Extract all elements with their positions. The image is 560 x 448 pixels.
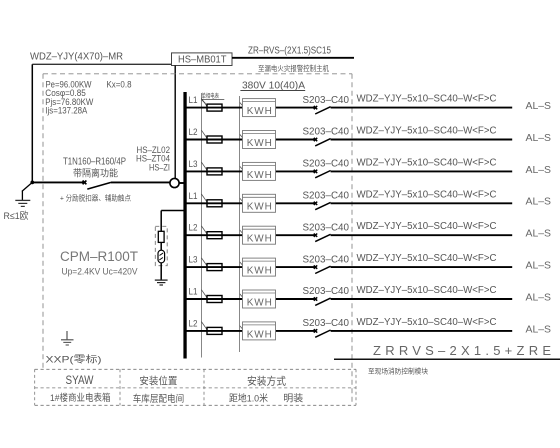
branch circuit 1 (L1) wire: bus to fuse to meter	[187, 107, 316, 109]
svg-text:ZR–RVS–(2X1.5)SC15: ZR–RVS–(2X1.5)SC15	[248, 45, 331, 56]
SPD dashed enclosure	[155, 226, 167, 265]
kWh meter P2	[243, 131, 276, 149]
svg-text:S203–C40: S203–C40	[303, 95, 350, 106]
kWh meter P7	[243, 290, 276, 308]
svg-text:HS–MB01T: HS–MB01T	[178, 55, 227, 66]
table column border 1	[119, 369, 121, 405]
wire: PE down stem	[21, 191, 23, 200]
svg-text:+ 分励脱扣器、辅助触点: + 分励脱扣器、辅助触点	[60, 193, 131, 202]
svg-text:明装: 明装	[283, 392, 304, 404]
svg-text:单相电表: 单相电表	[202, 92, 220, 100]
svg-text:KWH: KWH	[247, 329, 272, 340]
svg-text:L3: L3	[189, 159, 198, 170]
wire: SPD vertical drop	[160, 211, 162, 232]
svg-text:XXP(零标): XXP(零标)	[46, 353, 102, 365]
table middle border	[35, 387, 356, 389]
branch circuit 7 wire: breaker to outgoing end	[331, 298, 513, 300]
table top border	[35, 368, 356, 370]
tap diagonal to meter, branch 6	[240, 262, 244, 266]
wire: main feed to breaker	[32, 181, 84, 183]
wire: SPD tap from busbar	[161, 210, 183, 212]
branch circuit 5 wire: breaker to outgoing end	[331, 234, 513, 236]
fuse F8	[207, 327, 222, 334]
svg-text:L1: L1	[189, 287, 198, 298]
svg-text:AL–S: AL–S	[526, 228, 552, 240]
wire: incoming feeder horizontal	[32, 63, 171, 65]
svg-text:Ijs=137.28A: Ijs=137.28A	[45, 106, 87, 116]
branch circuit 8 (L2) wire: bus to fuse to meter	[187, 330, 316, 332]
wire: XXP earth stem	[66, 331, 68, 340]
tap diagonal to meter, branch 5	[240, 230, 244, 234]
svg-text:S203–C40: S203–C40	[303, 159, 350, 170]
meter module HS-MB01T box	[172, 53, 233, 66]
svg-text:L1: L1	[189, 95, 198, 106]
breaker QF1 blade	[315, 107, 330, 114]
tap diagonal to meter, branch 2	[240, 134, 244, 138]
svg-text:AL–S: AL–S	[526, 260, 552, 272]
svg-text:AL–S: AL–S	[526, 100, 552, 112]
kWh meter P3	[243, 162, 276, 180]
svg-text:L2: L2	[189, 223, 198, 234]
breaker QF7 blade	[315, 298, 330, 305]
wire: HS-MB01T drop to CT circle	[174, 66, 176, 179]
node: service entrance junction dot	[30, 181, 34, 185]
svg-text:至漏电火灾报警控制主机: 至漏电火灾报警控制主机	[258, 64, 330, 73]
svg-text:带隔离功能: 带隔离功能	[73, 167, 118, 179]
svg-text:AL–S: AL–S	[526, 164, 552, 176]
tap diagonal to meter, branch 3	[240, 166, 244, 170]
svg-text:380V 10(40)A: 380V 10(40)A	[242, 80, 305, 92]
table left border	[34, 369, 36, 405]
kWh meter P4	[243, 194, 276, 212]
breaker QF5 contact cross	[314, 234, 317, 237]
breaker QF4 blade	[315, 202, 330, 209]
svg-text:L2: L2	[189, 127, 198, 138]
tap diagonal to fuse, branch 3	[201, 162, 206, 170]
svg-text:S203–C40: S203–C40	[303, 127, 350, 138]
svg-text:HS–ZI: HS–ZI	[149, 162, 170, 172]
svg-text:KWH: KWH	[247, 266, 272, 277]
svg-text:Up=2.4KV Uc=420V: Up=2.4KV Uc=420V	[62, 266, 138, 276]
wire: PE blade from junction	[22, 183, 32, 192]
breaker QF8 blade	[315, 330, 330, 337]
breaker QF2 blade	[315, 139, 330, 146]
fuse F2	[207, 136, 222, 143]
meter column guide line	[239, 96, 241, 352]
underline of single-phase meter note	[201, 98, 224, 100]
tap diagonal to meter, branch 8	[240, 326, 244, 330]
kWh meter P8	[243, 322, 276, 340]
svg-text:S203–C40: S203–C40	[303, 286, 350, 297]
wire: incoming feeder vertical drop	[31, 64, 33, 182]
panel enclosure dashed right edge	[351, 74, 353, 406]
branch circuit 6 wire: breaker to outgoing end	[331, 266, 513, 268]
breaker QF5 blade	[315, 234, 330, 241]
svg-text:WDZ–YJY–5x10–SC40–W<F>C: WDZ–YJY–5x10–SC40–W<F>C	[357, 317, 497, 328]
branch circuit 3 wire: breaker to outgoing end	[331, 170, 513, 172]
table bottom border	[35, 404, 356, 406]
main breaker Q0 contact cross	[83, 181, 87, 185]
table right border	[355, 369, 357, 405]
svg-text:车库层配电间: 车库层配电间	[133, 393, 185, 405]
fuse F6	[207, 264, 222, 271]
CT / metering circle	[170, 178, 179, 187]
breaker QF6 contact cross	[314, 265, 317, 268]
fuse F3	[207, 168, 222, 175]
branch circuit 7 (L1) wire: bus to fuse to meter	[187, 298, 316, 300]
panel enclosure dashed left edge	[42, 74, 44, 370]
svg-text:S203–C40: S203–C40	[303, 191, 350, 202]
tap diagonal to meter, branch 4	[240, 198, 244, 202]
kWh meter P6	[243, 258, 276, 276]
breaker QF8 contact cross	[314, 329, 317, 332]
wire: arrester to earth	[160, 263, 162, 280]
svg-text:KWH: KWH	[247, 202, 272, 213]
svg-text:L2: L2	[189, 318, 198, 329]
svg-text:ZRRVS–2X1.5+ZRE: ZRRVS–2X1.5+ZRE	[373, 343, 551, 358]
svg-text:WDZ–YJY(4X70)–MR: WDZ–YJY(4X70)–MR	[30, 51, 123, 63]
svg-text:Kx=0.8: Kx=0.8	[107, 79, 132, 89]
svg-text:WDZ–YJY–5x10–SC40–W<F>C: WDZ–YJY–5x10–SC40–W<F>C	[357, 126, 497, 137]
svg-text:KWH: KWH	[247, 106, 272, 117]
svg-text:安装方式: 安装方式	[247, 374, 286, 387]
wire: fuse to arrester	[160, 242, 162, 250]
svg-text:S203–C40: S203–C40	[303, 318, 350, 329]
breaker QF1 contact cross	[314, 106, 317, 109]
wire: fire control signal line	[334, 358, 560, 360]
svg-text:T1N160–R160/4P: T1N160–R160/4P	[63, 156, 126, 167]
svg-text:R≤1欧: R≤1欧	[4, 210, 29, 222]
tap diagonal to fuse, branch 4	[201, 194, 206, 202]
tap diagonal to fuse, branch 7	[201, 290, 206, 298]
ground: XXP earth symbol	[61, 340, 74, 345]
branch circuit 5 (L2) wire: bus to fuse to meter	[187, 234, 316, 236]
tap diagonal to meter, branch 1	[240, 102, 244, 106]
svg-text:KWH: KWH	[247, 170, 272, 181]
tap diagonal to fuse, branch 8	[201, 322, 206, 330]
fuse F4	[207, 200, 222, 207]
branch circuit 3 (L3) wire: bus to fuse to meter	[187, 170, 316, 172]
breaker QF7 contact cross	[314, 297, 317, 300]
svg-text:AL–S: AL–S	[526, 323, 552, 335]
svg-text:WDZ–YJY–5x10–SC40–W<F>C: WDZ–YJY–5x10–SC40–W<F>C	[357, 285, 497, 296]
ground: SPD earth	[155, 280, 168, 285]
svg-text:WDZ–YJY–5x10–SC40–W<F>C: WDZ–YJY–5x10–SC40–W<F>C	[357, 221, 497, 232]
svg-text:CPM–R100T: CPM–R100T	[60, 249, 138, 264]
wire: circle to busbar	[179, 182, 184, 184]
panel enclosure dashed top edge	[43, 73, 352, 75]
svg-text:AL–S: AL–S	[526, 132, 552, 144]
svg-text:1#楼商业电表箱: 1#楼商业电表箱	[50, 392, 111, 404]
breaker QF3 blade	[315, 171, 330, 178]
svg-text:AL–S: AL–S	[526, 196, 552, 208]
fuse F1	[207, 104, 222, 111]
svg-text:WDZ–YJY–5x10–SC40–W<F>C: WDZ–YJY–5x10–SC40–W<F>C	[357, 189, 497, 200]
svg-text:KWH: KWH	[247, 297, 272, 308]
svg-text:S203–C40: S203–C40	[303, 222, 350, 233]
svg-text:距地1.0米: 距地1.0米	[229, 392, 268, 404]
ground: service entrance earth	[15, 200, 30, 206]
kWh meter P5	[243, 226, 276, 244]
tap diagonal to fuse, branch 2	[201, 130, 206, 138]
branch circuit 4 (L1) wire: bus to fuse to meter	[187, 202, 316, 204]
svg-text:L3: L3	[189, 255, 198, 266]
leader diagonal of meter note	[202, 100, 206, 104]
branch circuit 1 wire: breaker to outgoing end	[331, 107, 513, 109]
branch circuit 2 (L2) wire: bus to fuse to meter	[187, 139, 316, 141]
breaker QF6 blade	[315, 266, 330, 273]
surge arrester CPM-R100T element	[158, 250, 165, 263]
fuse F5	[207, 232, 222, 239]
branch circuit 2 wire: breaker to outgoing end	[331, 139, 513, 141]
breaker QF2 contact cross	[314, 138, 317, 141]
tap diagonal to fuse, branch 6	[201, 258, 206, 266]
svg-text:KWH: KWH	[247, 138, 272, 149]
svg-text:AL–S: AL–S	[526, 291, 552, 303]
breaker QF3 contact cross	[314, 170, 317, 173]
branch circuit 4 wire: breaker to outgoing end	[331, 202, 513, 204]
underline of 380V 10(40)A	[240, 90, 305, 92]
svg-text:安装位置: 安装位置	[139, 374, 177, 387]
tap diagonal to fuse, branch 1	[201, 98, 206, 106]
breaker QF4 contact cross	[314, 202, 317, 205]
fuse column guide line	[200, 93, 202, 358]
fuse F7	[207, 296, 222, 303]
tap diagonal to meter, branch 7	[240, 294, 244, 298]
svg-text:至现场消防控制模块: 至现场消防控制模块	[368, 366, 428, 375]
branch circuit 8 wire: breaker to outgoing end	[331, 330, 513, 332]
fuse FU-SPD (vertical)	[158, 231, 164, 242]
svg-text:WDZ–YJY–5x10–SC40–W<F>C: WDZ–YJY–5x10–SC40–W<F>C	[357, 253, 497, 264]
svg-text:WDZ–YJY–5x10–SC40–W<F>C: WDZ–YJY–5x10–SC40–W<F>C	[357, 94, 497, 105]
wire: HS-MB01T to fire alarm host	[232, 57, 354, 59]
main breaker Q0 blade	[87, 182, 111, 189]
kWh meter P1	[243, 99, 276, 117]
svg-text:L1: L1	[189, 191, 198, 202]
busbar (vertical)	[183, 92, 186, 359]
svg-text:S203–C40: S203–C40	[303, 254, 350, 265]
wire: breaker to CT circle	[111, 181, 170, 183]
svg-text:WDZ–YJY–5x10–SC40–W<F>C: WDZ–YJY–5x10–SC40–W<F>C	[357, 157, 497, 168]
tap diagonal to fuse, branch 5	[201, 226, 206, 234]
svg-text:SYAW: SYAW	[66, 373, 95, 387]
table column border 2	[203, 369, 205, 405]
svg-text:KWH: KWH	[247, 234, 272, 245]
branch circuit 6 (L3) wire: bus to fuse to meter	[187, 266, 316, 268]
